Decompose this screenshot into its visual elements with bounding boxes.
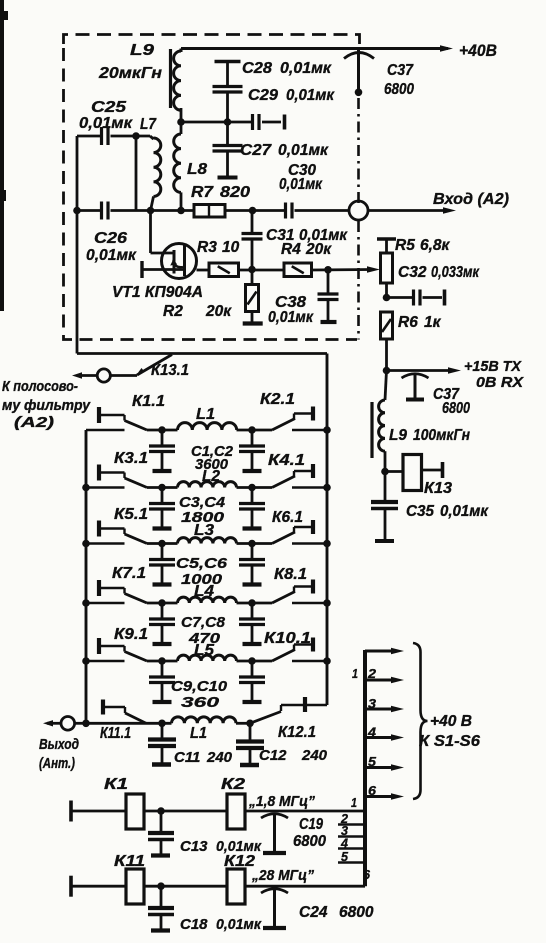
node left bus junction row5 <box>82 657 90 665</box>
node R4-C38 junction <box>324 266 332 274</box>
svg-text:С37: С37 <box>387 62 414 79</box>
wire filter row 6 <box>86 722 250 725</box>
svg-text:С9,С10: С9,С10 <box>171 678 228 695</box>
capacitor row3 right <box>239 544 265 585</box>
node R3-R4 junction <box>248 266 256 274</box>
svg-text:0В RX: 0В RX <box>476 375 524 391</box>
svg-text:L1: L1 <box>190 725 207 742</box>
capacitor C28 <box>213 60 333 122</box>
node left bus junction row3 <box>82 540 90 548</box>
svg-text:0,01мк: 0,01мк <box>216 916 262 933</box>
label C1,C2 3600 <box>191 443 234 473</box>
wire lower connector stubs <box>338 825 365 863</box>
wire main row y210 <box>77 209 285 212</box>
svg-text:С26: С26 <box>94 230 127 247</box>
svg-text:К13: К13 <box>424 480 452 497</box>
svg-text:К1: К1 <box>104 776 128 793</box>
svg-text:0,01мк: 0,01мк <box>286 87 335 104</box>
wire drain VT1 <box>151 211 176 254</box>
svg-text:R3: R3 <box>197 239 217 256</box>
wire left bus stub row1 <box>86 429 125 432</box>
svg-text:С5,С6: С5,С6 <box>176 555 228 572</box>
wire R3 to R4 <box>239 269 285 272</box>
node row5 left cap junction <box>158 657 166 665</box>
node L7 junction <box>147 207 155 215</box>
svg-text:1к: 1к <box>424 314 442 331</box>
relay coil K11 label <box>114 853 145 870</box>
label pin numbers upper <box>352 666 377 798</box>
node K13-C35 junction <box>381 468 389 476</box>
contact К4.1 <box>272 464 327 488</box>
node left bus row6 junction <box>82 720 90 728</box>
svg-text:С19: С19 <box>299 816 323 833</box>
resistor R4 20к <box>281 241 332 277</box>
node L8 junction <box>177 207 185 215</box>
node +15V junction <box>383 367 391 375</box>
svg-text:К10.1: К10.1 <box>264 630 311 647</box>
svg-text:К7.1: К7.1 <box>112 565 146 582</box>
svg-text:L8: L8 <box>187 161 207 178</box>
contact К1.1 <box>99 407 147 430</box>
node R5-R6 junction <box>383 294 391 302</box>
wire connector arrow 4 <box>365 734 404 740</box>
svg-text:К S1-S6: К S1-S6 <box>419 733 480 750</box>
label C7,C8 470 <box>181 614 226 647</box>
shield box (dashed screen) <box>64 35 360 340</box>
brace S1-S6 <box>413 643 428 799</box>
label 1,8 MHz <box>248 793 315 810</box>
wire left bus <box>85 430 88 723</box>
capacitor row4 left <box>149 603 175 644</box>
svg-text:К3.1: К3.1 <box>114 450 148 467</box>
svg-text:К1.1: К1.1 <box>132 393 165 410</box>
svg-text:+15В TX: +15В TX <box>464 359 522 375</box>
svg-text:R7: R7 <box>191 184 215 201</box>
svg-text:С27: С27 <box>240 142 273 159</box>
svg-text:240: 240 <box>206 749 233 766</box>
contact К9.1 <box>99 638 147 661</box>
capacitor C30 <box>279 162 349 219</box>
node row3 right cap junction <box>248 540 256 548</box>
inductor L3 <box>178 538 237 544</box>
scan artifact bar (left edge) <box>0 0 8 311</box>
svg-text:К2: К2 <box>221 776 245 793</box>
svg-text:(Ант.): (Ант.) <box>39 755 75 772</box>
inductor L4 <box>178 597 237 603</box>
svg-text:4: 4 <box>367 725 377 740</box>
node left junction <box>73 207 81 215</box>
wire connector arrow 6 <box>365 793 404 799</box>
capacitor row2 left <box>149 488 175 529</box>
svg-text:L4: L4 <box>194 583 214 600</box>
wire filter row 4 <box>147 602 272 605</box>
node row6 C11 junction <box>158 720 166 728</box>
svg-text:му фильтру: му фильтру <box>2 397 91 414</box>
svg-text:1: 1 <box>351 795 357 810</box>
svg-text:К8.1: К8.1 <box>274 566 307 583</box>
svg-text:С25: С25 <box>91 99 126 116</box>
resistor R7 820 <box>191 184 250 217</box>
capacitor row1 left <box>149 430 175 471</box>
svg-text:„1,8 МГц”: „1,8 МГц” <box>248 793 315 810</box>
node C28 junction <box>224 118 232 126</box>
contact К6.1 <box>272 520 327 544</box>
capacitor C31 <box>242 211 349 271</box>
svg-text:К2.1: К2.1 <box>260 391 295 408</box>
svg-text:L7: L7 <box>140 116 157 133</box>
node junction y122 <box>177 118 185 126</box>
svg-text:0,033мк: 0,033мк <box>431 264 480 281</box>
capacitor C27 <box>213 122 330 178</box>
svg-text:К13.1: К13.1 <box>151 362 189 379</box>
inductor L1 <box>178 423 237 430</box>
svg-text:К полосово-: К полосово- <box>2 378 78 395</box>
capacitor C38 <box>268 270 339 326</box>
svg-text:VТ1 КП904А: VТ1 КП904А <box>112 284 203 301</box>
wire filter row 2 <box>147 486 272 489</box>
svg-text:0,01мк: 0,01мк <box>86 247 137 264</box>
wire output arrow <box>39 720 86 772</box>
svg-text:Выход: Выход <box>39 736 79 753</box>
svg-text:К12: К12 <box>224 853 255 870</box>
label C3,C4 1800 <box>179 494 226 526</box>
svg-text:Вход (А2): Вход (А2) <box>433 191 509 208</box>
capacitor C29 <box>248 87 335 130</box>
svg-text:6800: 6800 <box>293 833 326 850</box>
svg-text:К11: К11 <box>114 853 145 870</box>
svg-text:R6: R6 <box>398 314 418 331</box>
capacitor C37 feedthrough (on +15V) <box>402 374 471 418</box>
node row6 C12 junction <box>246 720 254 728</box>
transistor VT1 КП904А <box>112 244 203 302</box>
svg-text:„28 МГц”: „28 МГц” <box>251 867 314 884</box>
relay row 28MHz wiring <box>71 869 365 904</box>
capacitor C11 240 <box>148 723 233 766</box>
resistor R2 20к <box>163 270 263 324</box>
label to bandpass filter <box>2 378 91 431</box>
svg-text:С12: С12 <box>259 747 287 764</box>
node right bus junction row1 <box>323 426 331 434</box>
inductor L7 <box>140 116 161 211</box>
capacitor row5 left <box>149 661 175 702</box>
svg-text:С29: С29 <box>248 87 278 104</box>
node right bus junction row4 <box>323 599 331 607</box>
capacitor row4 right <box>239 603 265 644</box>
capacitor C25 <box>77 99 150 145</box>
svg-text:0,01мк: 0,01мк <box>280 60 332 77</box>
svg-text:R4: R4 <box>281 241 301 258</box>
wire junction row y122 <box>181 121 251 124</box>
svg-text:С32: С32 <box>398 264 427 281</box>
svg-text:0,01мк: 0,01мк <box>268 309 314 326</box>
relay coil K13 <box>385 455 452 498</box>
capacitor C13 0,01мк <box>148 811 262 856</box>
capacitor C18 0,01мк <box>148 886 262 933</box>
wire connector arrow 2 <box>365 677 404 683</box>
wire connector column <box>363 650 367 886</box>
wire R4 to R5 <box>312 266 381 272</box>
svg-text:С24: С24 <box>299 904 328 921</box>
node left bus junction row2 <box>82 484 90 492</box>
svg-text:L1: L1 <box>196 406 215 423</box>
svg-text:360: 360 <box>181 694 220 711</box>
svg-text:К5.1: К5.1 <box>114 506 148 523</box>
svg-text:0,01мк: 0,01мк <box>79 115 133 132</box>
svg-text:R5: R5 <box>395 237 415 254</box>
svg-text:0,01мк: 0,01мк <box>278 142 329 159</box>
capacitor C19 feedthrough <box>261 814 326 854</box>
contact К10.1 <box>272 638 327 662</box>
svg-text:3: 3 <box>368 696 377 711</box>
svg-text:6: 6 <box>368 783 377 798</box>
label +40V K S1-S6 <box>419 713 480 750</box>
svg-text:20к: 20к <box>305 241 332 258</box>
label 28 MHz <box>251 867 314 884</box>
svg-text:820: 820 <box>220 184 250 201</box>
resistor R6 1к <box>381 312 442 371</box>
relay coil K1 label <box>104 776 128 793</box>
contact К11.1 <box>103 700 146 724</box>
capacitor C26 <box>86 202 137 265</box>
relay coil K2 label <box>221 776 245 793</box>
node right bus junction row5 <box>323 657 331 665</box>
inductor L9 20мкГн <box>98 42 181 110</box>
svg-text:С7,С8: С7,С8 <box>181 614 226 631</box>
wire connector arrow 3 <box>365 706 404 712</box>
svg-text:0,01мк: 0,01мк <box>440 503 489 520</box>
svg-text:(А2): (А2) <box>14 414 54 431</box>
wire +15V TX <box>387 359 525 391</box>
label L3 <box>194 522 214 539</box>
svg-text:10: 10 <box>222 239 240 256</box>
svg-text:20мкГн: 20мкГн <box>98 65 163 82</box>
svg-text:6: 6 <box>363 867 371 882</box>
svg-text:1: 1 <box>352 666 358 681</box>
contact К12.1 <box>250 697 327 741</box>
node right bus junction row2 <box>323 484 331 492</box>
svg-text:К6.1: К6.1 <box>272 509 303 526</box>
label К11.1 <box>100 725 131 742</box>
svg-text:С18: С18 <box>180 916 208 933</box>
node row4 right cap junction <box>248 599 256 607</box>
label L4 <box>194 583 214 600</box>
node row5 right cap junction <box>248 657 256 665</box>
node C13 junction <box>157 807 165 815</box>
inductor L2 <box>178 482 237 488</box>
inductor L8 <box>174 134 208 211</box>
svg-text:R2: R2 <box>163 303 183 320</box>
resistor R5 6,8к <box>377 237 451 298</box>
shield right border (dash-dot) <box>357 98 360 340</box>
node row4 left cap junction <box>158 599 166 607</box>
label L5 <box>194 642 214 659</box>
label C9,C10 360 <box>171 678 228 711</box>
node row2 left cap junction <box>158 484 166 492</box>
wire C25 right vertical <box>135 136 138 211</box>
relay row 1,8MHz wiring <box>71 794 365 829</box>
wire filter row 5 <box>147 660 272 663</box>
capacitor C35 <box>371 472 489 542</box>
contact К5.1 <box>99 521 147 544</box>
label pin numbers lower <box>340 795 371 882</box>
svg-text:2: 2 <box>367 666 377 681</box>
wire shield-left to K13.1 rail <box>77 211 327 354</box>
capacitor row2 right <box>239 488 265 529</box>
capacitor C24 feedthrough <box>261 889 374 929</box>
svg-text:L5: L5 <box>194 642 214 659</box>
inductor L1 (row 6) <box>172 717 237 742</box>
wire left bus stub row2 <box>86 486 125 489</box>
svg-text:С35: С35 <box>406 503 434 520</box>
node row3 left cap junction <box>158 540 166 548</box>
node left bus junction row4 <box>82 599 90 607</box>
wire connector arrow 5 <box>365 764 404 770</box>
node row2 right cap junction <box>248 484 256 492</box>
contact K13.1 <box>72 355 189 383</box>
wire left bus stub row5 <box>86 660 125 663</box>
wire connector arrow 1 <box>365 648 404 654</box>
contact К7.1 <box>99 580 147 603</box>
capacitor C32 <box>387 264 480 306</box>
svg-text:L3: L3 <box>194 522 214 539</box>
wire +40V rail <box>181 47 448 50</box>
wire VT1 to R3 <box>197 269 211 272</box>
svg-text:L9: L9 <box>130 42 154 59</box>
svg-text:С13: С13 <box>180 838 208 855</box>
label C5,C6 1000 <box>176 555 228 588</box>
node row1 left cap junction <box>158 426 166 434</box>
wire filter row 3 <box>147 542 272 545</box>
node output feedthrough circle <box>61 717 75 731</box>
svg-text:+40В: +40В <box>459 41 497 60</box>
inductor L9 100мкГн <box>372 371 471 473</box>
svg-text:6800: 6800 <box>384 81 414 98</box>
svg-text:6800: 6800 <box>442 400 470 417</box>
contact К2.1 <box>272 407 327 431</box>
contact К8.1 <box>272 580 327 604</box>
wire filter row 1 <box>147 429 272 432</box>
svg-text:С11: С11 <box>174 749 200 766</box>
capacitor C12 240 <box>236 723 328 765</box>
node input feedthrough circle <box>349 201 368 220</box>
relay coil K12 label <box>224 853 255 870</box>
node R7-C30 junction <box>249 207 257 215</box>
svg-text:6,8к: 6,8к <box>420 237 451 254</box>
label K contacts <box>112 391 311 647</box>
wire right bus <box>326 354 329 706</box>
node +40V arrow <box>440 41 497 60</box>
svg-text:5: 5 <box>341 849 349 864</box>
svg-text:К12.1: К12.1 <box>278 724 316 741</box>
node right bus junction row3 <box>323 540 331 548</box>
svg-text:20к: 20к <box>205 303 232 320</box>
svg-text:L2: L2 <box>202 468 220 485</box>
contact К3.1 <box>99 465 147 488</box>
svg-text:100мкГн: 100мкГн <box>413 427 471 444</box>
svg-text:С28: С28 <box>242 60 272 77</box>
svg-text:240: 240 <box>301 747 328 764</box>
inductor L5 <box>178 655 237 661</box>
wire left bus stub row4 <box>86 602 125 605</box>
node C18 junction <box>157 882 165 890</box>
svg-text:+40 В: +40 В <box>430 713 472 730</box>
capacitor C37 feedthrough (top) <box>344 49 414 99</box>
wire L9 to junction <box>180 108 183 134</box>
node C25-L7 junction <box>132 132 140 140</box>
capacitor row1 right <box>239 430 265 471</box>
wire input to A2 <box>368 191 509 214</box>
wire left bus stub row3 <box>86 542 125 545</box>
label L1 <box>196 406 215 423</box>
svg-text:L9: L9 <box>389 427 407 444</box>
svg-text:5: 5 <box>368 754 377 769</box>
svg-text:К4.1: К4.1 <box>268 452 305 469</box>
svg-text:0,01мк: 0,01мк <box>279 176 323 193</box>
capacitor row5 right <box>239 661 265 702</box>
label L2 <box>202 468 220 485</box>
svg-text:К9.1: К9.1 <box>114 626 148 643</box>
resistor R3 10 <box>197 239 240 277</box>
svg-text:К11.1: К11.1 <box>100 725 131 742</box>
node row1 right cap junction <box>248 426 256 434</box>
capacitor row3 left <box>149 544 175 585</box>
wire C25 left vertical <box>76 136 79 211</box>
svg-text:6800: 6800 <box>339 904 374 921</box>
